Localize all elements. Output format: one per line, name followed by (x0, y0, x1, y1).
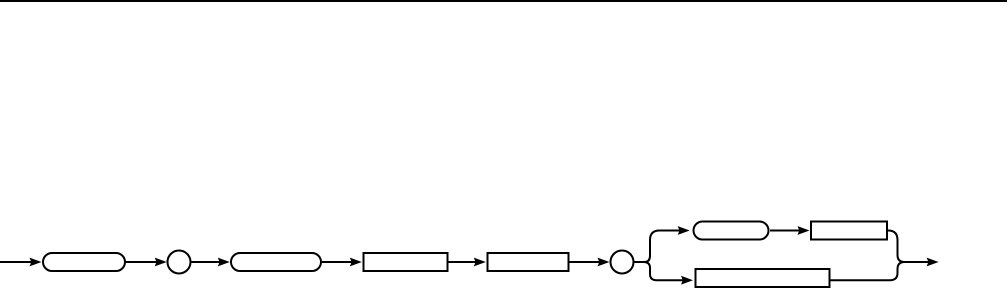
wire upper branch in (644, 231, 681, 263)
wire T2 to box N1 (322, 261, 353, 263)
arrowhead into T3 (678, 226, 690, 235)
arrowhead into N1 (350, 258, 362, 267)
wire upper branch out to merge node (888, 231, 905, 263)
arrowhead into N2 (474, 258, 486, 267)
wire N2 to separator S2 (570, 261, 602, 263)
arrowhead into T2 (218, 258, 230, 267)
wire start to box T1 (0, 261, 33, 263)
arrowhead into S2 (598, 258, 610, 267)
arrowhead into N3 (798, 226, 810, 235)
wire merge to end (905, 261, 931, 263)
nonterminal box N2 (488, 253, 569, 271)
arrowhead into T1 (30, 258, 42, 267)
wire N1 to box N2 (449, 261, 478, 263)
wire lower branch in (644, 262, 684, 280)
nonterminal box N4 (696, 269, 830, 287)
wire S2 to branch node (635, 261, 645, 263)
arrowhead into N4 (681, 276, 693, 285)
terminal box T2 (231, 253, 321, 271)
arrowhead into S1 (155, 258, 167, 267)
header rule (0, 0, 1007, 2)
terminal box T1 (43, 253, 125, 271)
wire lower branch out to merge node (831, 262, 905, 280)
wire T1 to separator S1 (126, 261, 159, 263)
nonterminal box N1 (364, 253, 448, 271)
separator circle S2 (611, 251, 634, 274)
separator circle S1 (168, 251, 191, 274)
terminal box T3 (694, 222, 769, 240)
arrowhead end (927, 258, 939, 267)
nonterminal box N3 (811, 222, 887, 240)
wire S1 to box T2 (192, 261, 222, 263)
wire T3 to box N3 (770, 230, 801, 232)
